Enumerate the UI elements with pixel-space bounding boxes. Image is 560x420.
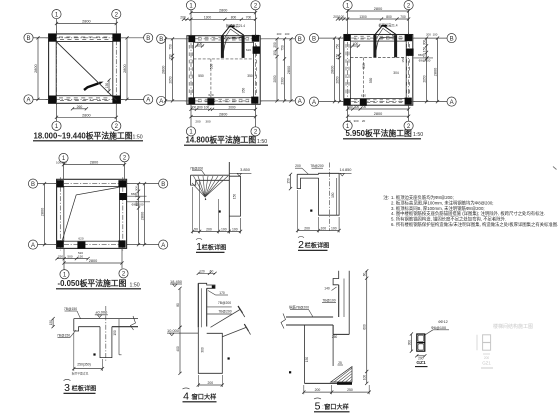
d2 slab with left hook (297, 174, 318, 188)
plan4 wall centerlines (55, 183, 129, 185)
plan1 stair direction arrow (bold) (84, 83, 99, 90)
svg-text:2000: 2000 (228, 105, 235, 109)
plan2 column bottom-right (251, 97, 258, 104)
svg-text:2800: 2800 (374, 112, 382, 116)
svg-text:200: 200 (426, 33, 431, 37)
plan3 bubble B right (447, 34, 456, 43)
plan1 wall hatch dashes top (59, 36, 63, 38)
plan4 bubble 2 bottom (119, 269, 128, 278)
plan3 bottom dim tier1 (348, 108, 409, 110)
svg-text:750: 750 (336, 44, 340, 50)
plan4 column bottom-mid (77, 242, 85, 249)
svg-text:A: A (298, 99, 302, 105)
d2 dim 150 left (290, 174, 292, 188)
plan3 top dim tier2 (338, 18, 409, 20)
svg-text:120: 120 (199, 269, 205, 273)
svg-text:A: A (161, 243, 165, 249)
stair tower post left (solid) (221, 36, 224, 58)
svg-text:150: 150 (305, 357, 309, 363)
plan4 bottom dim tier1 (57, 258, 88, 260)
svg-text:2800: 2800 (34, 64, 38, 72)
svg-text:栏板详图: 栏板详图 (72, 385, 97, 393)
plan3 grid extensions (347, 10, 349, 35)
svg-text:1:50: 1:50 (257, 139, 267, 145)
plan2 interior dim 400 (196, 45, 204, 47)
plan2 bubble B left (157, 34, 166, 43)
svg-text:2800: 2800 (90, 161, 98, 165)
svg-text:2050: 2050 (273, 75, 277, 82)
plan2 left dim tier2 (172, 39, 174, 101)
d4 wall verticals (197, 283, 199, 327)
plan1 column bottom-left (48, 96, 56, 104)
plan3 wall outer (344, 35, 413, 106)
svg-text:150: 150 (49, 320, 53, 326)
d2 wall (319, 173, 340, 215)
stair curve (376, 37, 395, 55)
plan2 wall outer (187, 36, 260, 105)
svg-text:200: 200 (61, 161, 66, 165)
svg-text:250: 250 (347, 388, 353, 392)
stray mark far right (553, 167, 557, 170)
d4 upper break diagonal (211, 310, 241, 328)
gz1 bottom dim (417, 355, 425, 357)
d3 break symbol right (131, 316, 136, 330)
d2 centerline (329, 163, 331, 232)
d4 lower break diagonal (222, 327, 246, 337)
svg-text:650: 650 (418, 53, 423, 57)
svg-text:200: 200 (484, 356, 490, 360)
plan2 bottom dim 2800 (191, 116, 256, 118)
svg-text:750: 750 (169, 44, 173, 50)
plan2 column bottom-mid (207, 98, 214, 105)
d1 fan hatch (194, 176, 206, 197)
roof inner line (377, 28, 395, 38)
gz1 column outline (417, 334, 425, 351)
plan3 bubble A left (309, 97, 318, 106)
svg-text:150: 150 (105, 83, 109, 89)
svg-text:B: B (31, 182, 35, 188)
svg-text:1300: 1300 (204, 15, 212, 19)
plan3 wall hatch dashes (354, 35, 357, 37)
svg-text:150: 150 (233, 194, 237, 200)
svg-text:800: 800 (386, 15, 392, 19)
plan1 bottom dimension 2800 (57, 116, 117, 118)
svg-text:800: 800 (231, 15, 237, 19)
svg-text:B: B (146, 36, 150, 42)
plan1 grid bubble A right (144, 95, 153, 104)
svg-text:B: B (26, 36, 30, 42)
d5 left slab band (286, 316, 333, 318)
plan2 column bottom-left (188, 97, 195, 104)
plan3 left dim tier2 (339, 38, 341, 102)
svg-text:400: 400 (197, 42, 203, 46)
plan1 stair diagonal (57, 42, 117, 101)
plan1 grid bubble B left (24, 33, 33, 42)
svg-text:6. 所有楼板钢筋保护层构造做法/未注明详图集, 构造做法: 6. 所有楼板钢筋保护层构造做法/未注明详图集, 构造做法之处/板厚详图集之有关… (391, 221, 558, 228)
svg-text:520: 520 (78, 251, 83, 255)
svg-text:1:50: 1:50 (413, 132, 423, 138)
svg-text:B: B (298, 37, 302, 43)
svg-text:260: 260 (77, 105, 83, 109)
svg-text:60: 60 (363, 273, 367, 277)
plan1 left dimension 2800 (37, 38, 39, 100)
d4 section marker (228, 357, 230, 359)
plan3 left dim 2800 (334, 38, 336, 102)
pointed roof outline (374, 25, 396, 36)
svg-text:200: 200 (180, 15, 186, 19)
svg-text:18.000~19.440板平法施工图: 18.000~19.440板平法施工图 (34, 130, 133, 140)
svg-text:250: 250 (58, 255, 63, 259)
plan2 column top-left (188, 35, 195, 42)
stair tower post left (solid) (373, 35, 376, 57)
svg-text:注:: 注: (383, 194, 389, 201)
plan3 wall centerlines (342, 37, 415, 39)
stair curve (223, 38, 242, 56)
svg-text:250: 250 (332, 335, 338, 339)
svg-text:2050: 2050 (423, 75, 427, 82)
d1 right wall (229, 176, 240, 216)
plan3 wall inner (350, 41, 406, 99)
d2 level line 14.850 (330, 172, 352, 174)
svg-text:板顶标高21.4: 板顶标高21.4 (379, 22, 398, 27)
svg-text:550: 550 (369, 78, 373, 84)
plan2 grid extensions (190, 10, 192, 36)
plan1 wall outer (49, 34, 121, 103)
svg-text:350: 350 (242, 88, 246, 94)
d5 upper wall band (333, 271, 349, 335)
svg-text:楼梯间结构施工图: 楼梯间结构施工图 (493, 323, 533, 330)
svg-text:100: 100 (204, 105, 210, 109)
svg-text:10.000: 10.000 (167, 328, 180, 333)
svg-text:1:50: 1:50 (133, 134, 143, 140)
plan2 left dim 2800 (165, 39, 167, 101)
plan4 bottom dim 2800 (64, 262, 122, 264)
svg-text:B: B (312, 36, 316, 42)
svg-text:100: 100 (285, 32, 290, 36)
plan4 right dim 2800 (144, 184, 146, 245)
svg-text:2800: 2800 (41, 208, 45, 216)
plan1 right dimension 2800 (126, 38, 128, 100)
d4 level flag 18.450 (170, 283, 182, 285)
plan2 right dim tier1 (276, 39, 278, 101)
d1 bottom dims (193, 230, 241, 232)
d1 fan arrow (205, 198, 207, 201)
svg-text:150: 150 (113, 330, 117, 336)
d5 black bar under triangle (337, 382, 352, 385)
svg-text:窗口大样: 窗口大样 (324, 403, 349, 411)
svg-text:B: B (159, 37, 163, 43)
d5 right dims (366, 271, 368, 384)
svg-text:3.850: 3.850 (240, 167, 251, 172)
plan4 column top-right (118, 180, 126, 187)
svg-text:100: 100 (320, 227, 326, 231)
d3 section marker (93, 353, 95, 355)
svg-text:栏板详图: 栏板详图 (305, 242, 330, 250)
svg-text:100: 100 (339, 15, 345, 19)
d4 bottom dim 200 (198, 384, 222, 386)
roof inner line (224, 29, 242, 39)
plan3 bubble B left (309, 34, 318, 43)
svg-text:6Φ12: 6Φ12 (438, 320, 447, 324)
d1 level line 3.850 (229, 172, 251, 174)
svg-text:300: 300 (353, 119, 358, 123)
plan4 column right-mid (120, 193, 127, 200)
d3 slab with left hook (74, 319, 138, 331)
svg-text:200: 200 (315, 388, 321, 392)
stair tower post right (solid) (242, 36, 245, 58)
d4 left dims (179, 288, 181, 327)
d5 corner below slab (332, 325, 334, 334)
svg-text:200: 200 (418, 356, 424, 360)
svg-text:2800: 2800 (434, 68, 438, 76)
plan1 grid bubble 1 bottom (52, 121, 61, 130)
plan1 bottom small dim 260 (73, 108, 87, 110)
svg-text:Φ6@100: Φ6@100 (431, 326, 446, 330)
svg-text:14.850: 14.850 (340, 167, 353, 172)
plan2 top dim 2800 (191, 12, 256, 14)
svg-text:300: 300 (201, 347, 205, 353)
plan2 bottom dim tier1 (191, 108, 256, 110)
plan1 grid bubble 2 bottom (112, 121, 121, 130)
plan2 bubble B right (295, 34, 304, 43)
svg-text:600: 600 (363, 324, 367, 330)
plan4 bubble A left (28, 240, 37, 249)
plan4 left dim 2800 (44, 184, 46, 245)
d5 hatched triangle (331, 367, 352, 382)
plan4 bubble 1 top (59, 153, 68, 162)
plan2 interior dashed line horizontal (194, 58, 254, 60)
d1 slab with left hook (191, 175, 230, 185)
svg-text:2800: 2800 (219, 113, 227, 117)
svg-text:7B@200: 7B@200 (218, 309, 231, 313)
svg-text:300: 300 (205, 120, 210, 124)
svg-text:200: 200 (191, 105, 197, 109)
plan3 bubble 2 top (404, 1, 413, 10)
svg-text:-0.050板平法施工图: -0.050板平法施工图 (58, 278, 127, 288)
plan2 column top-right (252, 35, 259, 42)
svg-text:200: 200 (304, 227, 310, 231)
d5 bottom dims (304, 391, 369, 393)
svg-text:100: 100 (433, 33, 438, 37)
svg-text:25: 25 (338, 361, 342, 365)
d2 inner wall line (336, 178, 338, 215)
svg-text:620: 620 (208, 93, 213, 97)
svg-text:18.450: 18.450 (170, 279, 183, 284)
d4 level flag 10.000 (167, 332, 179, 334)
svg-text:200: 200 (295, 164, 301, 168)
d1 section marker (219, 210, 221, 212)
plan4 right dim tier (138, 184, 140, 245)
d2 bottom dims (298, 230, 340, 232)
svg-text:栏板详图: 栏板详图 (202, 244, 227, 252)
svg-text:620: 620 (361, 94, 366, 98)
svg-text:7B@200: 7B@200 (218, 301, 231, 305)
d5 slab break left (281, 314, 286, 329)
svg-text:150: 150 (287, 178, 291, 184)
svg-text:1:50: 1:50 (130, 282, 140, 288)
svg-text:150: 150 (345, 119, 350, 123)
svg-text:400: 400 (353, 42, 359, 46)
plan4 wall outer (57, 179, 127, 248)
svg-text:100: 100 (331, 227, 337, 231)
svg-text:700: 700 (400, 15, 406, 19)
plan3 interior dashed line horizontal (350, 57, 406, 59)
plan2 bubble 2 bottom (251, 127, 260, 136)
svg-text:2050: 2050 (336, 76, 340, 83)
svg-text:500: 500 (197, 105, 203, 109)
svg-text:200: 200 (277, 32, 282, 36)
svg-text:550: 550 (198, 74, 204, 78)
svg-text:140: 140 (324, 287, 330, 291)
plan1 column bottom-right (112, 96, 120, 104)
svg-text:A: A (26, 98, 30, 104)
plan1 grid bubble 2 top (112, 10, 121, 19)
svg-text:2800: 2800 (162, 66, 166, 74)
plan1 wall inner (56, 42, 113, 96)
d2 section marker (310, 210, 312, 212)
svg-text:500: 500 (67, 255, 72, 259)
plan1 right small dim 150 (108, 80, 110, 91)
svg-text:150: 150 (423, 47, 427, 53)
plan3 top dim 2800 (348, 10, 409, 12)
ghost column detail (483, 335, 491, 350)
svg-text:GZ1: GZ1 (416, 360, 426, 366)
plan2 right dim 2800 (290, 39, 292, 101)
svg-text:Φ6@100: Φ6@100 (419, 59, 431, 63)
plan3 interior dashed line vertical (363, 58, 365, 99)
svg-text:550: 550 (210, 64, 214, 70)
plan4 column bottom-right (118, 240, 125, 247)
plan2 bubble A right (295, 96, 304, 105)
svg-text:250: 250 (273, 42, 277, 48)
svg-text:7B@100: 7B@100 (322, 299, 335, 303)
plan4 bubble 1 bottom (60, 270, 69, 279)
plan2 interior dashed line vertical (210, 59, 212, 98)
svg-text:2050: 2050 (169, 76, 173, 83)
svg-text:B: B (161, 182, 165, 188)
svg-text:50: 50 (194, 227, 198, 231)
svg-text:7B@200: 7B@200 (310, 164, 323, 168)
d5 lower wall (304, 325, 306, 383)
plan2 wall hatch dashes (198, 98, 202, 100)
plan1 top dimension 2800 (57, 23, 117, 25)
svg-text:7B@200: 7B@200 (190, 166, 203, 170)
svg-text:2800: 2800 (89, 259, 97, 263)
svg-text:窗口大样: 窗口大样 (192, 393, 217, 401)
plan2 wall centerlines (185, 38, 262, 40)
svg-text:GZ1: GZ1 (482, 361, 491, 366)
plan4 bubble B right (159, 179, 168, 188)
svg-text:A: A (159, 99, 163, 105)
svg-text:200: 200 (361, 105, 367, 109)
svg-text:650: 650 (131, 192, 136, 196)
svg-text:300: 300 (423, 40, 427, 46)
svg-text:170: 170 (219, 291, 225, 295)
plan3 column top-right (405, 34, 413, 41)
svg-text:A: A (31, 243, 35, 249)
svg-text:300: 300 (135, 186, 139, 191)
svg-text:100: 100 (221, 227, 227, 231)
svg-text:150: 150 (336, 54, 340, 60)
plan3 right dim tier1 (426, 38, 428, 102)
svg-text:2800: 2800 (287, 66, 291, 74)
gz1 left dim (410, 334, 412, 351)
plan1 grid line extensions (56, 9, 58, 34)
svg-text:620: 620 (78, 237, 83, 241)
d3 dim 150 left (52, 319, 54, 327)
stair tower post right (solid) (394, 35, 397, 57)
plan1 column top-right (112, 34, 120, 42)
svg-text:150: 150 (273, 50, 277, 56)
svg-text:1300: 1300 (359, 15, 367, 19)
pointed roof outline (222, 26, 244, 37)
svg-text:7B@150: 7B@150 (57, 334, 70, 338)
svg-text:250(350): 250(350) (77, 363, 91, 367)
svg-text:2800: 2800 (219, 9, 227, 13)
plan3 column top-left (344, 34, 351, 41)
svg-text:80: 80 (176, 303, 180, 307)
d3 wall below (100, 327, 112, 358)
svg-text:200: 200 (206, 227, 212, 231)
svg-text:200: 200 (195, 120, 200, 124)
svg-text:2800: 2800 (331, 66, 335, 74)
plan3 bubble 1 top (343, 1, 352, 10)
plan3 column bottom-left (344, 98, 351, 105)
plan1 wall centerlines dash-dot (46, 37, 124, 39)
svg-text:7B@150: 7B@150 (64, 307, 77, 311)
svg-text:200: 200 (207, 381, 213, 385)
plan3 right dim 2800 (437, 38, 439, 102)
svg-text:2800: 2800 (374, 7, 382, 11)
d4 top dim 120/60 (198, 272, 215, 274)
svg-text:2800: 2800 (82, 20, 90, 24)
plan3 bubble 1 bottom (343, 121, 352, 130)
plan2 bubble A left (157, 96, 166, 105)
svg-text:A: A (450, 100, 454, 106)
plan3 bubble 2 bottom (404, 121, 413, 130)
svg-text:400: 400 (176, 346, 180, 352)
plan3 column right-mid (406, 49, 413, 56)
plan3 column bottom-right (405, 98, 412, 105)
svg-text:150: 150 (169, 54, 173, 60)
plan4 stair flight line (62, 187, 118, 240)
svg-text:300: 300 (354, 105, 360, 109)
plan2 top dim tier2 1300/800/700 (184, 18, 256, 20)
svg-text:60: 60 (210, 269, 214, 273)
svg-text:150: 150 (347, 105, 353, 109)
plan4 bubble A right (159, 240, 168, 249)
svg-text:300: 300 (407, 340, 411, 346)
svg-text:750: 750 (281, 45, 285, 51)
plan2 bubble 1 bottom (186, 127, 195, 136)
svg-text:2300: 2300 (281, 77, 285, 84)
plan4 grid extensions (63, 163, 65, 180)
plan3 bubble A right (447, 97, 456, 106)
svg-text:150: 150 (331, 192, 335, 198)
plan4 bubble B left (28, 179, 37, 188)
svg-text:150: 150 (401, 57, 405, 62)
svg-text:板厚平面详见: 板厚平面详见 (72, 371, 89, 375)
svg-text:2800: 2800 (141, 212, 145, 220)
svg-text:B: B (450, 36, 454, 42)
plan4 column top-left (57, 180, 64, 187)
d5 section marker (289, 371, 291, 373)
d3 right thin line (118, 319, 120, 355)
plan1 grid bubble 1 top (52, 10, 61, 19)
svg-text:A: A (312, 100, 316, 106)
d1 wall left edge extended (228, 162, 230, 234)
d4 parapet cap (198, 283, 215, 288)
